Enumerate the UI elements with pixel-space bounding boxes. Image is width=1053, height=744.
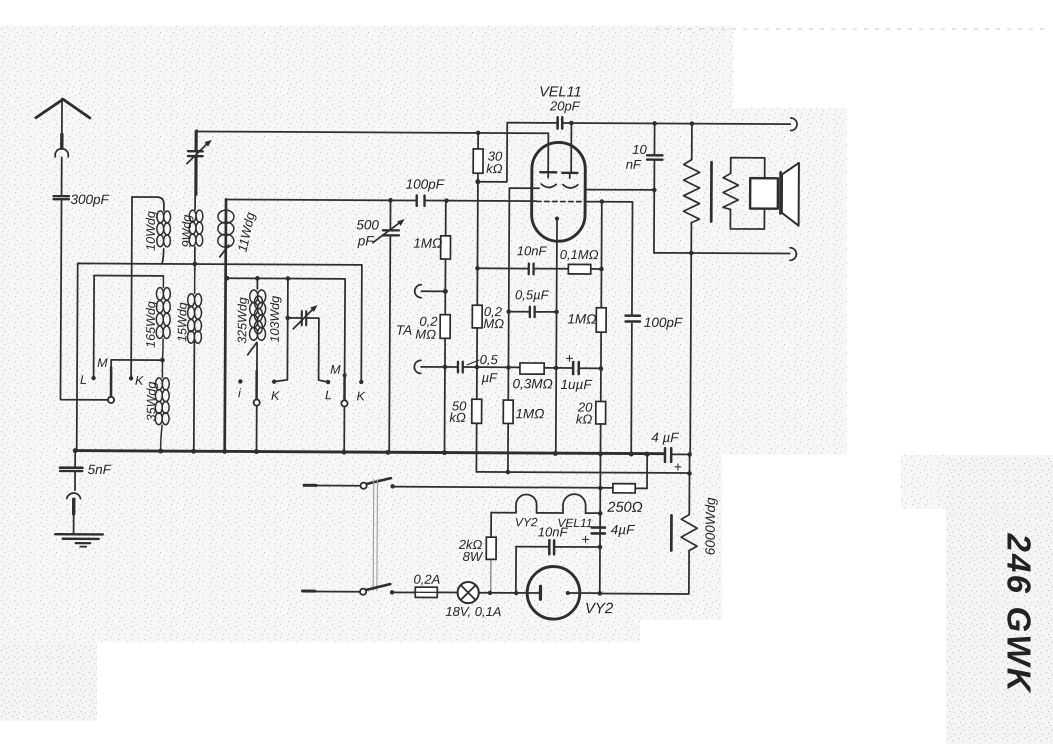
svg-text:6000Wdg: 6000Wdg: [703, 497, 718, 555]
svg-text:1MΩ: 1MΩ: [413, 236, 442, 251]
svg-text:+: +: [674, 459, 682, 475]
svg-text:0,5µF: 0,5µF: [515, 287, 550, 302]
svg-text:K: K: [356, 389, 365, 403]
svg-text:500: 500: [356, 217, 379, 232]
svg-text:10nF: 10nF: [538, 524, 569, 539]
svg-text:kΩ: kΩ: [486, 161, 503, 176]
svg-text:246 GWK: 246 GWK: [1001, 533, 1038, 694]
svg-text:µF: µF: [482, 370, 499, 385]
svg-text:kΩ: kΩ: [449, 410, 466, 425]
svg-text:L: L: [80, 373, 87, 387]
svg-text:5nF: 5nF: [88, 462, 112, 477]
svg-text:8W: 8W: [463, 549, 484, 564]
svg-text:pF: pF: [357, 233, 375, 248]
svg-text:MΩ: MΩ: [415, 327, 436, 342]
svg-text:VY2: VY2: [515, 515, 538, 529]
svg-text:0,3MΩ: 0,3MΩ: [513, 376, 553, 391]
svg-text:M: M: [97, 356, 108, 370]
svg-text:+: +: [565, 350, 573, 366]
svg-text:325Wdg: 325Wdg: [235, 297, 249, 344]
svg-text:4 µF: 4 µF: [651, 430, 679, 445]
svg-text:0,2A: 0,2A: [413, 572, 440, 587]
svg-text:1uµF: 1uµF: [561, 377, 593, 392]
svg-text:VY2: VY2: [585, 600, 614, 617]
svg-text:+: +: [581, 531, 589, 547]
svg-text:10: 10: [632, 142, 647, 157]
svg-text:TA: TA: [396, 323, 412, 338]
svg-text:20pF: 20pF: [549, 98, 581, 113]
svg-text:300pF: 300pF: [70, 192, 109, 207]
svg-text:0,1MΩ: 0,1MΩ: [560, 247, 599, 262]
svg-text:250Ω: 250Ω: [606, 500, 642, 516]
svg-text:MΩ: MΩ: [483, 316, 504, 331]
svg-text:15Wdg: 15Wdg: [175, 302, 189, 342]
svg-text:35Wdg: 35Wdg: [144, 382, 158, 422]
svg-text:165Wdg: 165Wdg: [144, 301, 158, 348]
svg-text:100pF: 100pF: [406, 177, 445, 192]
svg-text:K: K: [271, 389, 280, 403]
svg-text:L: L: [325, 388, 332, 402]
svg-text:18V, 0,1A: 18V, 0,1A: [445, 604, 501, 619]
svg-text:M: M: [330, 363, 341, 377]
svg-text:1MΩ: 1MΩ: [515, 406, 544, 421]
svg-text:4µF: 4µF: [611, 522, 635, 537]
svg-text:10nF: 10nF: [517, 243, 548, 258]
svg-text:100pF: 100pF: [644, 315, 683, 330]
svg-text:nF: nF: [626, 157, 642, 172]
svg-text:10Wdg: 10Wdg: [144, 211, 158, 251]
svg-text:0,5: 0,5: [480, 352, 499, 367]
svg-text:9Wdg: 9Wdg: [180, 215, 194, 248]
svg-text:103Wdg: 103Wdg: [268, 296, 282, 343]
svg-text:K: K: [135, 374, 144, 388]
svg-text:1MΩ: 1MΩ: [567, 311, 596, 326]
svg-text:kΩ: kΩ: [576, 412, 593, 427]
